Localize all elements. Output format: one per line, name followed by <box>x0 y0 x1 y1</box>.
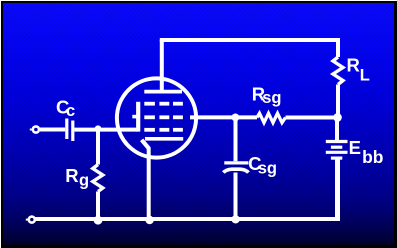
svg-text:L: L <box>360 66 370 84</box>
svg-text:R: R <box>65 165 78 186</box>
svg-text:R: R <box>347 55 360 76</box>
svg-text:bb: bb <box>362 147 383 167</box>
svg-text:c: c <box>66 102 75 120</box>
svg-text:sg: sg <box>258 159 277 177</box>
svg-text:E: E <box>349 137 361 158</box>
svg-text:g: g <box>79 171 89 189</box>
svg-text:sg: sg <box>262 89 281 107</box>
